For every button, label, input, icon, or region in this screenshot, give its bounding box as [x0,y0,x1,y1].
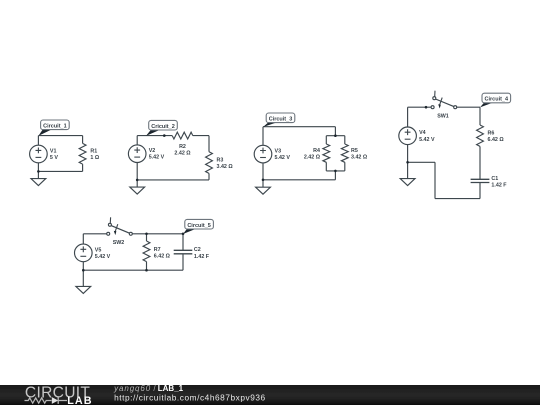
svg-text:R7: R7 [154,247,161,253]
svg-text:1.42 F: 1.42 F [194,254,210,260]
svg-text:SW2: SW2 [113,240,125,246]
svg-text:R5: R5 [351,148,358,154]
svg-text:Circuit_3: Circuit_3 [269,116,293,122]
svg-text:3.42 Ω: 3.42 Ω [351,155,368,161]
svg-text:SW1: SW1 [437,114,449,120]
svg-text:C2: C2 [194,247,201,253]
svg-text:V5: V5 [95,247,102,253]
svg-text:R2: R2 [179,144,186,150]
svg-text:LAB: LAB [67,395,93,405]
svg-text:6.42 Ω: 6.42 Ω [488,137,505,143]
svg-text:R6: R6 [488,131,495,137]
svg-text:6.42 Ω: 6.42 Ω [154,254,171,260]
svg-text:http://circuitlab.com/c4h687bx: http://circuitlab.com/c4h687bxpv936 [114,392,266,402]
svg-text:3.42 Ω: 3.42 Ω [217,164,234,170]
svg-text:1 Ω: 1 Ω [90,155,99,161]
svg-text:C1: C1 [491,176,498,182]
svg-text:5.42 V: 5.42 V [95,254,111,260]
svg-text:1.42 F: 1.42 F [491,183,507,189]
svg-text:2.42 Ω: 2.42 Ω [174,151,191,157]
svg-text:Cricuit_2: Cricuit_2 [151,124,175,130]
svg-text:V4: V4 [419,130,426,136]
svg-text:5.42 V: 5.42 V [149,155,165,161]
svg-text:R1: R1 [90,149,97,155]
svg-text:Circuit_5: Circuit_5 [187,223,211,229]
svg-text:R3: R3 [217,157,224,163]
svg-text:V3: V3 [275,149,282,155]
svg-text:5.42 V: 5.42 V [275,155,291,161]
svg-text:Circuit_4: Circuit_4 [485,97,509,103]
svg-text:V1: V1 [50,148,57,154]
svg-text:Circuit_1: Circuit_1 [43,123,67,129]
svg-text:V2: V2 [149,148,156,154]
svg-text:5.42 V: 5.42 V [419,137,435,143]
svg-text:R4: R4 [313,148,320,154]
svg-text:2.42 Ω: 2.42 Ω [304,155,321,161]
svg-text:5 V: 5 V [50,155,58,161]
